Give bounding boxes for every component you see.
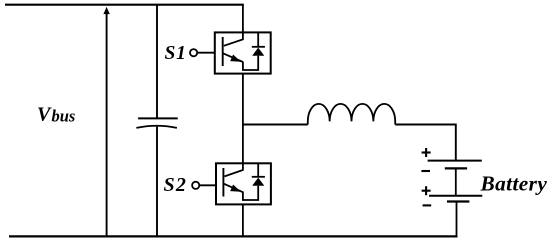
- IGBT S2 box: [216, 163, 271, 204]
- battery cell2 plus sign: [422, 190, 431, 192]
- S1 gate lead wire: [198, 52, 216, 54]
- IGBT S2 collector path: [225, 163, 243, 176]
- IGBT S1 emitter line: [223, 53, 243, 62]
- wire S2 emitter to bottom bus: [242, 204, 244, 236]
- IGBT S1 emitter-to-exit staircase: [243, 56, 258, 70]
- top bus wire (Vbus+): [5, 4, 244, 6]
- svg-text:S2: S2: [164, 174, 188, 196]
- wire inductor to battery top: [395, 125, 456, 161]
- IGBT S2 gate bar: [222, 168, 224, 197]
- battery cell1 plus sign: [422, 151, 431, 153]
- battery inter-cell connector: [455, 168, 457, 195]
- Vbus arrowhead: [103, 7, 109, 14]
- wire midpoint node to S2 collector: [242, 125, 244, 164]
- S1 diode D1 cathode lead: [257, 32, 259, 46]
- capacitor C top lead: [156, 5, 158, 119]
- battery cell1 short plate: [445, 167, 467, 169]
- S2 gate lead wire: [200, 184, 217, 186]
- S1 diode D1 cathode bar: [252, 46, 265, 48]
- battery cell2 minus sign: [423, 204, 432, 206]
- svg-text:S1: S1: [165, 43, 187, 64]
- bottom bus wire (Vbus-): [9, 235, 458, 237]
- wire top bus to S1 collector: [242, 5, 244, 33]
- capacitor C bottom curved plate: [136, 126, 177, 128]
- battery bottom lead: [456, 202, 458, 237]
- S2 diode D2 cathode lead: [257, 163, 259, 177]
- wire midpoint node to inductor: [243, 124, 308, 126]
- S1 diode D1 triangle: [252, 48, 264, 56]
- capacitor C top plate: [138, 117, 178, 119]
- IGBT S1 gate bar: [222, 37, 224, 66]
- S2 diode D2 cathode bar: [252, 176, 265, 178]
- battery cell1 minus sign: [421, 170, 430, 172]
- battery cell2 long plate: [429, 195, 482, 197]
- svg-text:Battery: Battery: [480, 172, 548, 196]
- battery cell1 long plate: [428, 160, 482, 162]
- battery cell2 short plate: [447, 200, 469, 202]
- svg-text:bus: bus: [52, 106, 76, 125]
- IGBT S2 emitter line: [223, 184, 243, 193]
- IGBT S2 emitter-to-exit staircase: [243, 186, 258, 200]
- IGBT S1 collector path: [224, 32, 243, 45]
- S2 gate terminal circle: [192, 182, 199, 189]
- S2 diode D2 triangle: [252, 178, 264, 186]
- Vbus arrow line: [106, 12, 108, 236]
- capacitor C bottom lead: [156, 127, 158, 237]
- wire S1 emitter to midpoint node: [242, 74, 244, 125]
- IGBT S1 box: [215, 32, 271, 73]
- IGBT S2 emitter arrowhead: [230, 185, 241, 192]
- S1 gate terminal circle: [190, 49, 197, 56]
- IGBT S1 emitter arrowhead: [230, 55, 241, 62]
- svg-text:V: V: [37, 104, 52, 126]
- inductor L coil: [308, 104, 395, 125]
